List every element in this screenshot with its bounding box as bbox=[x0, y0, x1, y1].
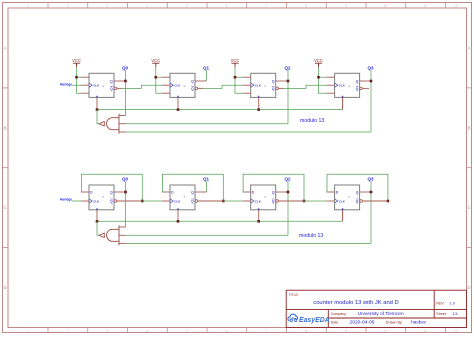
junction reset bus stage 1 (row 2) bbox=[96, 220, 99, 223]
svg-text:Q: Q bbox=[191, 87, 194, 91]
svg-text:Q3: Q3 bbox=[367, 65, 374, 70]
wire VCC rail to J and K (stage 2, row 1) bbox=[156, 67, 162, 93]
wire Q3 output (row 1) bbox=[368, 80, 371, 82]
svg-text:5: 5 bbox=[186, 4, 188, 8]
wire Q-bar U2 to CLK U3 (row 1) bbox=[203, 85, 243, 88]
wire Q3 to G2 input (row 2) bbox=[126, 242, 372, 244]
svg-text:B: B bbox=[4, 125, 7, 130]
AND gate G1 (row 1, modulo-13 reset) bbox=[99, 114, 126, 134]
junction reset bus stage 2 (row 2) bbox=[177, 220, 180, 223]
svg-text:3: 3 bbox=[106, 4, 108, 8]
svg-text:hasbec: hasbec bbox=[411, 320, 427, 325]
wire net Q1 vertical (row 2) bbox=[206, 181, 208, 192]
svg-text:TITLE:: TITLE: bbox=[289, 293, 299, 297]
svg-text:Drawn By:: Drawn By: bbox=[386, 321, 403, 325]
svg-text:VCC: VCC bbox=[72, 58, 81, 63]
svg-text:4: 4 bbox=[146, 329, 148, 333]
svg-text:D: D bbox=[4, 285, 7, 290]
wire Q1 output (row 2) bbox=[203, 191, 207, 193]
wire net Q3 vertical (row 1) bbox=[370, 70, 372, 132]
svg-text:12: 12 bbox=[454, 4, 458, 8]
svg-text:9: 9 bbox=[345, 4, 347, 8]
wire net Q3 vertical (row 2) bbox=[370, 181, 372, 243]
svg-text:Q: Q bbox=[356, 87, 359, 91]
svg-text:1: 1 bbox=[27, 4, 29, 8]
svg-text:1: 1 bbox=[27, 329, 29, 333]
svg-text:Q0: Q0 bbox=[122, 176, 129, 181]
svg-text:Q1: Q1 bbox=[203, 65, 210, 70]
svg-text:C: C bbox=[4, 205, 7, 210]
svg-text:4: 4 bbox=[146, 4, 148, 8]
junction Q0 (row 1) bbox=[124, 80, 127, 83]
svg-text:REV:: REV: bbox=[436, 302, 444, 306]
svg-text:Q3: Q3 bbox=[367, 176, 374, 181]
title block field TITLE bbox=[289, 293, 299, 297]
power symbol VCC (stage 1, row 1) bbox=[72, 58, 81, 67]
svg-text:Q: Q bbox=[110, 191, 113, 195]
junction feedback (stage 4, row 2) bbox=[387, 200, 390, 203]
svg-text:Q: Q bbox=[191, 200, 194, 204]
AND gate G2 (row 2, modulo-13 reset) bbox=[99, 225, 126, 245]
text modulo 13 (row 2) bbox=[299, 233, 323, 239]
svg-text:6: 6 bbox=[226, 329, 228, 333]
svg-text:VCC: VCC bbox=[231, 58, 240, 63]
svg-text:Date:: Date: bbox=[331, 321, 340, 325]
wire VCC rail to J and K (stage 3, row 1) bbox=[235, 67, 243, 93]
junction Q2 (row 1) bbox=[287, 80, 290, 83]
svg-text:3: 3 bbox=[106, 329, 108, 333]
wire Horloge to CLK U5 (row 2) bbox=[72, 200, 81, 202]
svg-text:9: 9 bbox=[345, 329, 347, 333]
svg-text:10: 10 bbox=[384, 329, 388, 333]
wire Q-bar U7 to CLK U8 (row 2) bbox=[278, 200, 326, 202]
JK flip-flop U3 bbox=[243, 73, 284, 109]
svg-text:Q: Q bbox=[110, 200, 113, 204]
wire VCC rail to J and K (stage 4, row 1) bbox=[319, 67, 327, 93]
net label Q0 (row 1) bbox=[122, 65, 129, 70]
svg-text:CLK: CLK bbox=[174, 84, 181, 88]
svg-text:Q: Q bbox=[272, 191, 275, 195]
junction VCC-J (stage 2, row 1) bbox=[155, 76, 158, 79]
net label Q3 (row 1) bbox=[367, 65, 374, 70]
title text bbox=[313, 300, 398, 306]
wire G2 output to reset bus (row 2) bbox=[97, 221, 99, 235]
junction feedback (stage 3, row 2) bbox=[303, 200, 306, 203]
power symbol VCC (stage 4, row 1) bbox=[314, 58, 323, 67]
svg-text:1/1: 1/1 bbox=[453, 311, 458, 316]
svg-text:modulo 13: modulo 13 bbox=[299, 233, 323, 239]
svg-text:Q: Q bbox=[356, 80, 359, 84]
svg-text:Q2: Q2 bbox=[284, 65, 291, 70]
svg-text:Horloge: Horloge bbox=[60, 82, 72, 86]
junction Q2 (row 2) bbox=[287, 191, 290, 194]
svg-text:10: 10 bbox=[384, 4, 388, 8]
wire Q-bar U3 to CLK U4 (row 1) bbox=[284, 85, 327, 88]
wire Q2 output (row 2) bbox=[284, 191, 288, 193]
wire net Q2 vertical (row 2) bbox=[287, 181, 289, 235]
net label Q1 (row 1) bbox=[203, 65, 210, 70]
svg-text:B: B bbox=[468, 125, 471, 130]
wire Q0 output (row 1) bbox=[122, 80, 126, 82]
wire net Q0 vertical (row 2) bbox=[125, 181, 127, 227]
wire VCC rail to J and K (stage 1, row 1) bbox=[77, 67, 82, 93]
svg-text:Q1: Q1 bbox=[203, 176, 210, 181]
svg-text:Q: Q bbox=[356, 200, 359, 204]
svg-text:7: 7 bbox=[265, 4, 267, 8]
svg-text:VCC: VCC bbox=[151, 58, 160, 63]
D flip-flop U7 bbox=[243, 185, 284, 221]
net label Q0 (row 2) bbox=[122, 176, 129, 181]
junction reset bus stage 3 (row 2) bbox=[257, 220, 260, 223]
svg-text:Q: Q bbox=[191, 191, 194, 195]
svg-text:5: 5 bbox=[186, 329, 188, 333]
svg-text:D: D bbox=[467, 285, 470, 290]
wire Q0 output (row 2) bbox=[122, 191, 126, 193]
svg-text:8: 8 bbox=[305, 4, 307, 8]
svg-text:A: A bbox=[468, 46, 471, 51]
wire Q2 output (row 1) bbox=[284, 80, 288, 82]
junction VCC-J (stage 1, row 1) bbox=[75, 76, 78, 79]
svg-text:11: 11 bbox=[424, 4, 428, 8]
wire G1 output to reset bus (row 1) bbox=[97, 110, 99, 124]
wire reset bus (row 2) bbox=[97, 210, 343, 222]
svg-text:Q2: Q2 bbox=[284, 176, 291, 181]
title block bbox=[286, 290, 466, 327]
wire reset bus (row 1) bbox=[97, 97, 343, 109]
svg-text:counter modulo 13 with JK and: counter modulo 13 with JK and D bbox=[313, 300, 398, 306]
svg-text:Horloge: Horloge bbox=[60, 197, 72, 201]
wire Q-bar to D feedback (stage 1, row 2) bbox=[81, 174, 142, 201]
wire Q-bar to D feedback (stage 4, row 2) bbox=[327, 174, 388, 201]
power symbol VCC (stage 3, row 1) bbox=[231, 58, 240, 67]
JK flip-flop U1 bbox=[81, 73, 122, 109]
svg-text:7: 7 bbox=[265, 329, 267, 333]
net label Q2 (row 2) bbox=[284, 176, 291, 181]
junction feedback (stage 1, row 2) bbox=[141, 200, 144, 203]
svg-text:Q: Q bbox=[191, 80, 194, 84]
junction VCC-J (stage 3, row 1) bbox=[234, 76, 237, 79]
svg-text:Q: Q bbox=[110, 87, 113, 91]
net label Q3 (row 2) bbox=[367, 176, 374, 181]
D flip-flop U6 bbox=[162, 185, 203, 221]
svg-text:8: 8 bbox=[305, 329, 307, 333]
wire Q3 output (row 2) bbox=[368, 191, 371, 193]
title block field Company bbox=[331, 311, 404, 317]
title block field Sheet bbox=[436, 311, 458, 316]
wire Q3 to G1 input (row 1) bbox=[126, 131, 372, 133]
svg-text:CLK: CLK bbox=[255, 200, 262, 204]
wire Q-bar U4 stub (row 1) bbox=[368, 87, 370, 89]
svg-text:CLK: CLK bbox=[93, 84, 100, 88]
svg-text:modulo 13: modulo 13 bbox=[300, 118, 324, 124]
title block field Drawn By bbox=[386, 320, 427, 325]
wire Q-bar U5 to CLK U6 (row 2) bbox=[117, 200, 162, 202]
svg-text:C: C bbox=[467, 205, 470, 210]
wire Q2 to G2 input (row 2) bbox=[126, 234, 289, 236]
svg-text:Q: Q bbox=[356, 191, 359, 195]
power symbol VCC (stage 2, row 1) bbox=[151, 58, 160, 67]
net label Horloge (row 2) bbox=[60, 197, 72, 201]
svg-text:6: 6 bbox=[226, 4, 228, 8]
logo EasyEDA bbox=[288, 314, 330, 324]
svg-text:Q: Q bbox=[110, 80, 113, 84]
D flip-flop U8 bbox=[327, 185, 368, 221]
JK flip-flop U4 bbox=[327, 73, 368, 109]
net label Horloge (row 1) bbox=[60, 82, 72, 86]
svg-text:CLK: CLK bbox=[174, 200, 181, 204]
svg-text:Q: Q bbox=[272, 200, 275, 204]
junction feedback (stage 2, row 2) bbox=[222, 200, 225, 203]
svg-text:1.0: 1.0 bbox=[450, 301, 456, 306]
svg-text:A: A bbox=[4, 46, 7, 51]
JK flip-flop U2 bbox=[162, 73, 203, 109]
wire Q-bar to D feedback (stage 2, row 2) bbox=[162, 174, 223, 201]
svg-text:Q0: Q0 bbox=[122, 65, 129, 70]
svg-text:University of Tlemcen: University of Tlemcen bbox=[358, 311, 404, 317]
junction Q3 (row 1) bbox=[370, 80, 373, 83]
junction VCC-J (stage 4, row 1) bbox=[317, 76, 320, 79]
wire Q-bar to D feedback (stage 3, row 2) bbox=[243, 174, 304, 201]
svg-text:EasyEDA: EasyEDA bbox=[299, 317, 330, 324]
text modulo 13 (row 1) bbox=[300, 118, 324, 124]
svg-text:2: 2 bbox=[67, 329, 69, 333]
svg-text:11: 11 bbox=[424, 329, 428, 333]
svg-text:CLK: CLK bbox=[339, 84, 346, 88]
svg-text:Q: Q bbox=[272, 80, 275, 84]
svg-text:2020-04-06: 2020-04-06 bbox=[350, 320, 375, 326]
wire Horloge to CLK U1 (row 1) bbox=[72, 84, 81, 86]
svg-text:Sheet:: Sheet: bbox=[436, 312, 446, 316]
junction Q3 (row 2) bbox=[370, 191, 373, 194]
title block field REV bbox=[436, 301, 455, 306]
wire net Q0 vertical (row 1) bbox=[125, 70, 127, 115]
wire Q2 to G1 input (row 1) bbox=[126, 123, 289, 125]
title block field Date bbox=[331, 320, 375, 326]
svg-text:CLK: CLK bbox=[255, 84, 262, 88]
svg-text:VCC: VCC bbox=[314, 58, 323, 63]
junction reset bus stage 1 (row 1) bbox=[96, 108, 99, 111]
wire Q-bar U1 to CLK U2 (row 1) bbox=[122, 85, 162, 88]
D flip-flop U5 bbox=[81, 185, 122, 221]
wire net Q1 vertical (row 1) bbox=[206, 70, 208, 81]
svg-text:CLK: CLK bbox=[339, 200, 346, 204]
wire Q-bar U8 to feedback (row 2) bbox=[362, 200, 388, 202]
junction reset bus stage 2 (row 1) bbox=[177, 108, 180, 111]
wire net Q2 vertical (row 1) bbox=[287, 70, 289, 123]
wire Q-bar U6 to CLK U7 (row 2) bbox=[198, 200, 243, 202]
wire Q1 output (row 1) bbox=[203, 80, 207, 82]
svg-text:12: 12 bbox=[454, 329, 458, 333]
junction Q0 (row 2) bbox=[124, 191, 127, 194]
junction reset bus stage 3 (row 1) bbox=[257, 108, 260, 111]
net label Q1 (row 2) bbox=[203, 176, 210, 181]
svg-text:2: 2 bbox=[67, 4, 69, 8]
svg-text:Q: Q bbox=[272, 87, 275, 91]
svg-text:CLK: CLK bbox=[93, 200, 100, 204]
net label Q2 (row 1) bbox=[284, 65, 291, 70]
svg-text:Company:: Company: bbox=[331, 312, 347, 316]
